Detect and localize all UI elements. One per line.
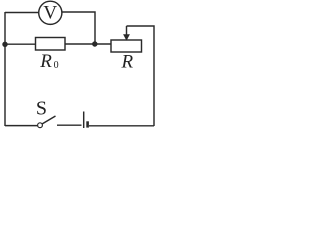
- svg-text:0: 0: [54, 60, 59, 71]
- svg-text:R: R: [39, 51, 52, 72]
- svg-text:V: V: [43, 3, 57, 24]
- svg-text:S: S: [36, 97, 47, 119]
- svg-text:R: R: [121, 51, 134, 72]
